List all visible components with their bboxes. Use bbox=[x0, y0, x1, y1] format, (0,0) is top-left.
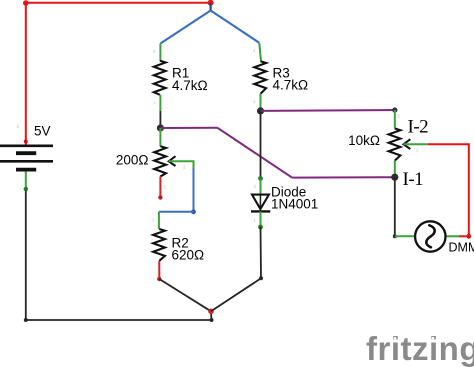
node I-1: junction pot bottom/purple/DMM bbox=[391, 174, 398, 181]
wire: blue from wiper down bbox=[193, 169, 195, 212]
wire: red top horizontal from battery + to apex bbox=[26, 2, 211, 4]
potentiometer RV2 10k zigzag bbox=[389, 129, 401, 161]
battery plate 4 short thick bbox=[16, 168, 36, 172]
wire: black segment R1 bottom to node A bbox=[159, 111, 161, 128]
wire: purple horizontal into I-1 node bbox=[292, 176, 395, 178]
wire: blue horizontal to R2 top bbox=[159, 211, 194, 213]
wire: purple from node B to 10k pot top bbox=[261, 109, 395, 112]
wire: black diagonal R2 to bottom apex bbox=[159, 279, 211, 311]
node: red dot bottom apex bbox=[208, 309, 214, 315]
node: red bendpoint lower right bbox=[466, 234, 471, 239]
node: red wire end at battery bbox=[24, 140, 28, 144]
svg-text:1N4001: 1N4001 bbox=[271, 197, 318, 212]
battery BAT1 5V: plate 1 long (positive) bbox=[0, 145, 53, 148]
node: red endpoint below pot bbox=[158, 195, 162, 199]
wire: black diode cathode down to bendpoint bbox=[260, 227, 263, 278]
DMM squiggle bbox=[426, 225, 434, 247]
svg-text:1: 1 bbox=[254, 218, 257, 223]
svg-text:2: 2 bbox=[183, 165, 186, 170]
pin leg: 10k pot bottom green lead bbox=[394, 161, 396, 175]
svg-text:1: 1 bbox=[164, 185, 167, 190]
pin leg: 10k wiper green line bbox=[404, 143, 428, 145]
wire: black from I-1 down to DMM level bbox=[394, 177, 396, 236]
wire: black center line through diode bbox=[259, 195, 261, 212]
wire: blue diagonal apex to R3 top bbox=[211, 11, 260, 43]
node A: junction R1/pot/purple bbox=[157, 124, 164, 131]
svg-text:4.7kΩ: 4.7kΩ bbox=[172, 78, 208, 93]
pin leg: diode anode green lead bbox=[260, 179, 262, 195]
svg-text:5V: 5V bbox=[34, 124, 51, 139]
node: bendpoint below diode bbox=[259, 276, 263, 280]
node: bottom-left bendpoint bbox=[24, 318, 28, 322]
resistor R1 4.7k zigzag bbox=[154, 61, 166, 95]
potentiometer RV1 200 ohm zigzag bbox=[154, 146, 166, 176]
pin leg: pot RV1 top green lead bbox=[159, 128, 161, 146]
pin leg: R1 top green lead bbox=[159, 44, 161, 62]
svg-text:620Ω: 620Ω bbox=[172, 248, 205, 263]
node: dark green dot diode anode wire end bbox=[258, 176, 263, 181]
svg-text:200Ω: 200Ω bbox=[116, 153, 149, 168]
diode D1 triangle bbox=[252, 195, 269, 209]
node: red endpoint top-left corner bbox=[23, 0, 29, 6]
wire: red left vertical down to battery positive bbox=[25, 3, 27, 145]
svg-text:2: 2 bbox=[254, 184, 257, 189]
wire: black left vertical to bottom rail bbox=[25, 191, 27, 321]
svg-text:2: 2 bbox=[253, 48, 256, 53]
svg-text:2: 2 bbox=[153, 49, 156, 54]
svg-text:I-2: I-2 bbox=[408, 117, 429, 138]
wire: black diagonal bottom apex to diode branch bbox=[211, 278, 261, 311]
svg-text:DMM: DMM bbox=[449, 241, 474, 255]
wire: blue diagonal apex to R1 top bbox=[160, 11, 210, 44]
node: endpoint at 10k pot top bbox=[392, 107, 397, 112]
pin leg: wiper green line bbox=[169, 161, 194, 169]
pin leg: pot RV1 bottom red lead (unconnected) bbox=[159, 177, 161, 198]
wire: purple diagonal down to right bbox=[218, 128, 293, 178]
node: bendpoint at DMM left bbox=[393, 234, 397, 238]
svg-text:1: 1 bbox=[153, 100, 156, 105]
node: dark green endpoint battery negative bbox=[24, 187, 28, 191]
pin leg: 10k pot top green lead bbox=[394, 110, 396, 129]
DMM meter circle bbox=[415, 221, 445, 251]
resistor R3 4.7k zigzag bbox=[254, 61, 266, 94]
pin leg: DMM left green lead bbox=[395, 235, 415, 237]
pin leg: R3 bottom green lead bbox=[260, 94, 262, 110]
pin leg: diode cathode green lead bbox=[260, 211, 262, 227]
node: bottom rail right endpoint bbox=[210, 318, 214, 322]
wire: black stub bottom apex bbox=[210, 311, 213, 320]
wire: dark blue stub at apex bbox=[210, 3, 212, 11]
wire: purple from node A horizontal bbox=[160, 127, 217, 129]
svg-text:I-1: I-1 bbox=[403, 169, 424, 190]
battery plate 3 long bbox=[0, 160, 53, 163]
node: dark green dot diode cathode wire end bbox=[258, 225, 263, 230]
diode D1 cathode bar bbox=[251, 210, 270, 212]
pin leg: battery negative green lead bbox=[25, 172, 27, 191]
battery plate 2 short thick bbox=[16, 151, 36, 155]
node: red endpoint R2 bottom bbox=[157, 277, 161, 281]
svg-text:2: 2 bbox=[416, 148, 419, 153]
svg-text:fritzing: fritzing bbox=[366, 330, 474, 367]
node: blue bendpoint bbox=[191, 209, 196, 214]
node B: junction R3/purple/diode bbox=[257, 107, 264, 114]
pin leg: DMM right green lead bbox=[446, 235, 459, 237]
fritzing logo ring dot holes on the i glyphs bbox=[394, 337, 397, 340]
svg-text:4.7kΩ: 4.7kΩ bbox=[273, 78, 309, 93]
wire: black from node B down to diode bbox=[260, 111, 262, 179]
pot RV1 wiper arrowhead bbox=[169, 156, 176, 166]
wire: red from wiper to right rail bbox=[428, 144, 469, 236]
pot RV2 wiper arrowhead bbox=[404, 139, 411, 149]
resistor R2 620 ohm zigzag bbox=[153, 229, 165, 261]
svg-text:2: 2 bbox=[152, 218, 155, 223]
node: red endpoint top apex bbox=[208, 0, 214, 6]
pin leg: R1 bottom green lead bbox=[159, 95, 161, 111]
svg-text:1: 1 bbox=[253, 99, 256, 104]
wire: black bottom rail bbox=[26, 319, 212, 321]
wire: red short into DMM right leg bbox=[459, 235, 469, 237]
pin leg: R2 bottom red lead bbox=[158, 261, 160, 279]
svg-text:2: 2 bbox=[17, 124, 20, 129]
pin leg: R3 top green lead bbox=[259, 43, 261, 62]
svg-text:2: 2 bbox=[398, 114, 401, 119]
svg-text:10kΩ: 10kΩ bbox=[348, 133, 380, 148]
pin leg: R2 top green lead bbox=[158, 212, 160, 229]
